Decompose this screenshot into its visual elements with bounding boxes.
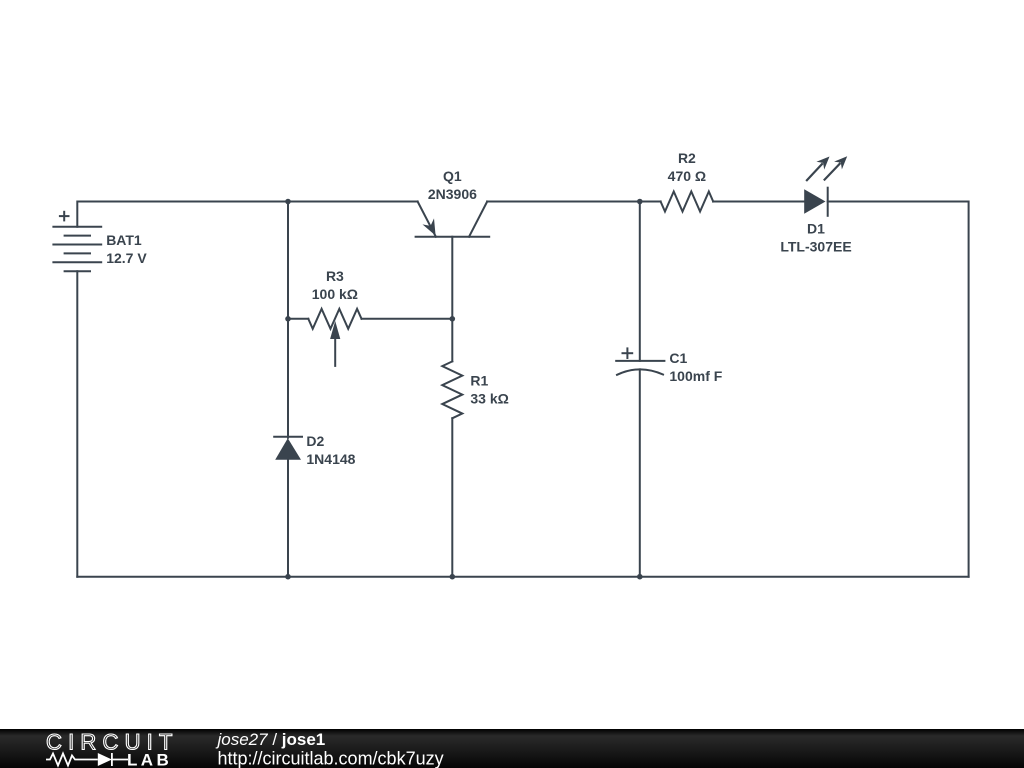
- svg-text:100mf F: 100mf F: [669, 368, 722, 384]
- svg-text:BAT1: BAT1: [106, 232, 142, 248]
- svg-text:2N3906: 2N3906: [428, 186, 477, 202]
- svg-text:R2: R2: [678, 150, 696, 166]
- svg-text:Q1: Q1: [443, 168, 462, 184]
- svg-text:R3: R3: [326, 268, 344, 284]
- svg-text:470 Ω: 470 Ω: [668, 168, 706, 184]
- svg-text:100 kΩ: 100 kΩ: [312, 286, 358, 302]
- svg-text:http://circuitlab.com/cbk7uzy: http://circuitlab.com/cbk7uzy: [218, 749, 444, 768]
- svg-text:1N4148: 1N4148: [306, 451, 355, 467]
- svg-text:R1: R1: [470, 373, 488, 389]
- svg-text:33 kΩ: 33 kΩ: [470, 391, 508, 407]
- svg-text:C1: C1: [669, 350, 687, 366]
- svg-text:LTL-307EE: LTL-307EE: [780, 239, 851, 255]
- svg-text:D1: D1: [807, 221, 825, 237]
- svg-text:LAB: LAB: [127, 751, 172, 768]
- svg-text:12.7 V: 12.7 V: [106, 250, 147, 266]
- svg-text:jose27 / jose1: jose27 / jose1: [216, 730, 326, 749]
- svg-text:D2: D2: [306, 433, 324, 449]
